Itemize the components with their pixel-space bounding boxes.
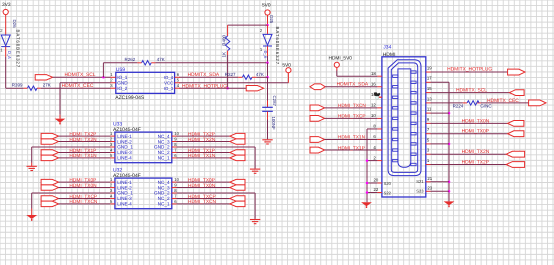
svg-text:47K: 47K	[256, 72, 264, 77]
junction left bus pin 2	[366, 159, 369, 162]
svg-text:GND: GND	[117, 80, 128, 85]
wire HDMI_TXCP to U32 pin 4	[59, 197, 111, 199]
J34 pin 16 lead	[377, 86, 382, 88]
wire U59 pin2 GND	[60, 82, 111, 84]
wire CEC left segment	[6, 87, 24, 89]
J34 pin 3 stub	[411, 153, 416, 155]
svg-text:GND_2: GND_2	[154, 191, 170, 196]
wire C287 bottom	[267, 112, 269, 120]
port HDMI_TX2N right of U33	[230, 139, 245, 144]
U59 pin 5 lead	[175, 82, 180, 84]
svg-text:BAT60BE6327: BAT60BE6327	[275, 27, 280, 66]
svg-text:J34: J34	[383, 45, 391, 51]
J34 connector slot	[398, 69, 411, 167]
svg-text:22: 22	[374, 187, 379, 192]
port HDMI_TX1P right of U33	[230, 150, 245, 155]
resistor R262	[142, 61, 152, 65]
svg-text:HDMI_TX0P: HDMI_TX0P	[462, 129, 489, 135]
wire pin 1 TX2P to port	[431, 164, 507, 166]
U32 pin 5 lead	[110, 203, 115, 205]
svg-text:HDMI_TX1P: HDMI_TX1P	[338, 145, 365, 151]
J34 pin 15 lead	[426, 92, 431, 94]
svg-text:S23: S23	[416, 188, 424, 193]
svg-text:R400: R400	[221, 35, 226, 46]
port HDMI_TX1P left of U33	[41, 150, 58, 155]
svg-text:10: 10	[371, 113, 376, 118]
resistor R327	[242, 75, 252, 79]
svg-text:19: 19	[427, 65, 432, 70]
svg-text:HDMI_TXCP: HDMI_TXCP	[188, 194, 216, 200]
svg-text:17: 17	[427, 76, 432, 81]
wire 5V0 to rail	[267, 15, 269, 25]
svg-text:LINE-3: LINE-3	[117, 150, 132, 155]
svg-text:AZC199-04S: AZC199-04S	[115, 95, 145, 101]
wire U33 pin 10 to port	[177, 135, 230, 137]
J34 pin 1 stub	[411, 163, 416, 165]
port HDMI_TX1N left of U33	[41, 155, 58, 160]
J34 pin 6 lead	[377, 139, 382, 141]
U32 pin 8 lead	[172, 192, 177, 194]
wire pin 23 to bus	[431, 190, 450, 192]
svg-text:HDMI_5V0: HDMI_5V0	[329, 56, 353, 62]
svg-text:HDMITX_SDA: HDMITX_SDA	[188, 72, 220, 78]
port HDMI_TX2P at J34	[506, 162, 524, 168]
wire HDMI_TX0P to U32 pin 1	[59, 181, 111, 183]
svg-text:HDMITX_CEC: HDMITX_CEC	[62, 83, 94, 89]
svg-text:HDMI_TXCN: HDMI_TXCN	[338, 103, 367, 109]
svg-text:12: 12	[371, 103, 376, 108]
svg-text:D25: D25	[269, 15, 274, 24]
wire R400 bottom to HOTPLUG	[227, 51, 229, 55]
wire pin 15 SCL to port	[431, 92, 510, 94]
svg-text:IO_4: IO_4	[164, 75, 174, 80]
svg-text:GND_1: GND_1	[117, 145, 133, 150]
svg-text:S20: S20	[384, 181, 392, 186]
J34 pin 5 lead	[426, 143, 431, 145]
U32 pin 2 lead	[110, 187, 115, 189]
J34 pin 5 stub	[411, 143, 416, 145]
wire pin 9 TX0N to port	[431, 122, 508, 124]
wire rail left of R262	[103, 62, 137, 64]
ground arrow U59 GND	[55, 119, 66, 125]
svg-text:HDMI_TX2N: HDMI_TX2N	[69, 137, 97, 143]
ground arrow J34 right	[444, 201, 455, 207]
ground earth U33	[27, 166, 37, 170]
J34 pin 4 lead	[377, 149, 382, 151]
wire U33 GND_1 lead	[31, 163, 33, 167]
wire D25 to rail junction	[267, 46, 269, 56]
port HDMI_TXCP left of U32	[41, 196, 58, 201]
svg-text:NC_2: NC_2	[158, 150, 170, 155]
port HDMI_TX1N right of U33	[230, 155, 245, 160]
svg-text:HDMI_TXCN: HDMI_TXCN	[188, 199, 217, 205]
U59 pin 1 lead	[111, 76, 116, 78]
port HDMITX_CEC at J34	[529, 100, 546, 106]
U33 pin 5 lead	[110, 157, 115, 159]
svg-text:HDMI_TX1N: HDMI_TX1N	[338, 135, 366, 141]
port HDMI_TX0P right of U32	[230, 179, 245, 184]
U33 pin 9 lead	[172, 141, 177, 143]
J34 pin 10 lead	[377, 117, 382, 119]
svg-text:LINE-4: LINE-4	[117, 202, 132, 207]
ground earth U33 GND_2	[250, 169, 260, 173]
J34 pin 12 lead	[377, 107, 382, 109]
wire pin 13 to R224	[431, 102, 463, 104]
svg-text:R224: R224	[453, 104, 464, 109]
port HDMI_TX0N at J34	[508, 121, 524, 127]
svg-text:S22: S22	[384, 191, 392, 196]
wire pin 3 TX2N to port	[431, 153, 507, 155]
port HDMI_TX1P at J34	[310, 147, 325, 153]
wire rail right of R262	[155, 62, 267, 64]
svg-text:HDMITX_HOTPLUG: HDMITX_HOTPLUG	[182, 83, 227, 89]
U32 body	[115, 178, 172, 209]
U32 pin 9 lead	[172, 187, 177, 189]
junction rail/D25	[266, 62, 269, 65]
diode D26	[1, 35, 10, 47]
port HDMI_TX0N left of U32	[41, 185, 58, 190]
svg-text:100NF: 100NF	[271, 117, 276, 130]
J34 connector outline inner	[391, 63, 417, 172]
svg-text:NC_3: NC_3	[158, 185, 170, 190]
svg-text:23: 23	[427, 186, 432, 191]
J34 body	[382, 57, 426, 197]
wire U32 GND_1 lead	[31, 209, 33, 216]
port HDMITX_HOTPLUG at J34	[508, 69, 525, 75]
J34 pin 11 lead	[426, 112, 431, 114]
wire U33 GND_2	[177, 146, 256, 148]
J34 pin 8 stub	[393, 128, 398, 130]
junction left bus pin 20	[366, 182, 369, 185]
resistor R327 leads	[238, 76, 242, 78]
wire U33 GND_1	[32, 146, 111, 148]
J34 pin 17 stub	[411, 81, 416, 83]
svg-text:5V0: 5V0	[282, 63, 291, 69]
power port HDMI_5V0 circle	[334, 62, 339, 67]
svg-text:S21: S21	[416, 179, 424, 184]
power port 3V3 circle	[3, 9, 8, 14]
svg-text:GND_2: GND_2	[154, 145, 170, 150]
U33 pin 1 lead	[110, 135, 115, 137]
svg-text:LINE-3: LINE-3	[117, 196, 132, 201]
resistor R399	[27, 86, 37, 90]
port HDMITX_SDA bidir	[310, 84, 325, 90]
svg-text:21: 21	[427, 176, 432, 181]
svg-text:15: 15	[427, 86, 432, 91]
wire U33 pin 9 to port	[177, 141, 230, 143]
wire U59 pin5 VCC	[179, 82, 288, 84]
svg-text:HDMI_TX1N: HDMI_TX1N	[69, 153, 97, 159]
wire SDA to pin 16	[325, 86, 377, 88]
svg-text:HDMI_TXCP: HDMI_TXCP	[69, 194, 97, 200]
J34 pin 15 stub	[411, 91, 416, 93]
svg-text:HDMI_TX2N: HDMI_TX2N	[462, 149, 490, 155]
svg-text:3V3: 3V3	[2, 2, 11, 8]
U33 pin 8 lead	[172, 146, 177, 148]
J34 pin 14 cursor artifact	[374, 92, 380, 99]
J34 pin 2 stub	[393, 159, 398, 161]
wire HDMI_TXCN to J34	[325, 107, 378, 109]
U33 body	[115, 132, 172, 163]
svg-text:VCC: VCC	[164, 80, 173, 85]
port HDMI_TXCP right of U32	[230, 196, 245, 201]
J34 pin 19 stub	[411, 71, 416, 73]
svg-text:HDMI_TX1P: HDMI_TX1P	[69, 148, 96, 154]
wire column to C287	[267, 77, 269, 100]
wire U33 pin 6 to port	[177, 157, 230, 159]
wire U32 pin 7 to port	[177, 197, 230, 199]
wire HDMI_TX1P to U33 pin 4	[59, 151, 111, 153]
svg-text:HDMITX_SCL: HDMITX_SCL	[65, 72, 96, 78]
port HDMI_TX2N left of U33	[41, 139, 58, 144]
ground earth C287	[262, 140, 272, 144]
J34 pin 7 stub	[411, 133, 416, 135]
svg-text:LINE-4: LINE-4	[117, 156, 132, 161]
wire U32 pin 6 to port	[177, 203, 230, 205]
J34 pin 22 lead	[377, 192, 382, 194]
port HDMITX_HOTPLUG	[246, 86, 263, 91]
wire HDMI_TX1N to U33 pin 5	[59, 157, 111, 159]
capacitor C287	[262, 107, 273, 111]
resistor R399 leads	[24, 87, 28, 89]
power port 5V0 circle	[265, 10, 270, 15]
junction right bus pin 5	[448, 143, 451, 146]
wire rail junction to SDA	[267, 63, 269, 78]
J34 pin 9 stub	[411, 122, 416, 124]
svg-text:LINE-2: LINE-2	[117, 139, 132, 144]
J34 pin 20 lead	[377, 182, 382, 184]
power port 5V0 second circle	[286, 68, 291, 73]
J34 pin 13 stub	[411, 102, 416, 104]
svg-text:HDMI_TX0N: HDMI_TX0N	[188, 183, 216, 189]
junction SDA/column	[266, 76, 269, 79]
port HDMI_TX2N at J34	[506, 151, 524, 157]
junction right bus pin 11	[448, 112, 451, 115]
resistor R224 leads	[463, 102, 467, 104]
svg-text:NC_3: NC_3	[158, 139, 170, 144]
U32 pin 7 lead	[172, 197, 177, 199]
svg-text:HDMITX_SCL: HDMITX_SCL	[456, 88, 487, 94]
svg-text:HDMI_TXCP: HDMI_TXCP	[338, 114, 366, 120]
svg-text:IO_2: IO_2	[117, 86, 128, 91]
svg-text:5V0: 5V0	[262, 3, 271, 9]
svg-text:10: 10	[174, 177, 179, 182]
svg-text:HDMI_TX1P: HDMI_TX1P	[188, 148, 215, 154]
port HDMI_TXCN at J34	[310, 105, 325, 111]
port HDMI_TX0P left of U32	[41, 179, 58, 184]
U33 pin 2 lead	[110, 141, 115, 143]
wire R224 to CEC port	[481, 102, 529, 104]
svg-text:16: 16	[371, 81, 376, 86]
port HDMI_TXCP at J34	[310, 116, 325, 122]
svg-text:HDMI_TX2P: HDMI_TX2P	[69, 131, 96, 137]
J34 pin 14 lead	[377, 96, 382, 98]
svg-text:HDMI_TXCN: HDMI_TXCN	[69, 199, 98, 205]
U59 body	[116, 72, 175, 93]
ground arrow U32	[26, 215, 37, 221]
svg-text:NC_1: NC_1	[158, 202, 170, 207]
svg-text:C287: C287	[272, 96, 277, 107]
svg-text:NC_4: NC_4	[158, 134, 170, 139]
svg-text:BAT60BE6327: BAT60BE6327	[15, 30, 20, 69]
wire R262 vertical drop	[102, 63, 104, 78]
port HDMI_TX0N right of U32	[230, 185, 245, 190]
J34 pin 19 lead	[426, 71, 431, 73]
U59 pin 2 lead	[111, 82, 116, 84]
U32 pin 4 lead	[110, 197, 115, 199]
wire pin 21 to bus	[431, 181, 450, 183]
svg-text:13: 13	[427, 96, 432, 101]
svg-text:HDMI_TX2N: HDMI_TX2N	[188, 137, 216, 143]
wire U59 pin4 HOTPLUG	[179, 87, 246, 89]
svg-text:HDMI_TX0P: HDMI_TX0P	[188, 177, 215, 183]
J34 pin 18 lead	[377, 75, 382, 77]
wire J34 left ground bus	[367, 128, 377, 130]
wire R327 to junction	[256, 76, 267, 78]
svg-text:GND_1: GND_1	[117, 191, 133, 196]
wire pin 7 TX0P to port	[431, 133, 508, 135]
wire U33 pin 7 to port	[177, 151, 230, 153]
U59 pin 4 lead	[175, 87, 180, 89]
junction R400/HOTPLUG	[226, 87, 229, 90]
svg-text:NC_1: NC_1	[158, 156, 170, 161]
svg-text:LINE-1: LINE-1	[117, 180, 132, 185]
wire HDMI_TX2P to U33 pin 1	[59, 135, 111, 137]
U33 pin 4 lead	[110, 151, 115, 153]
svg-text:NC_2: NC_2	[158, 196, 170, 201]
wire 3V3 to D26	[5, 15, 7, 35]
wire U32 pin 9 to port	[177, 187, 230, 189]
svg-text:1K: 1K	[221, 52, 226, 58]
svg-text:HDMITX_HOTPLUG: HDMITX_HOTPLUG	[447, 66, 492, 72]
wire HDMI_TXCN to U32 pin 5	[59, 203, 111, 205]
svg-text:NC_4: NC_4	[158, 180, 170, 185]
wire D26 to CEC line	[5, 47, 7, 57]
wire pin 19 to port	[431, 71, 508, 73]
wire CEC to U59 pin 3	[41, 87, 111, 89]
U59 pin 6 lead	[175, 76, 180, 78]
svg-text:20: 20	[374, 178, 379, 183]
resistor R224	[467, 101, 479, 105]
diode D25	[263, 34, 272, 46]
svg-text:HDMI_TX2P: HDMI_TX2P	[188, 131, 215, 137]
U33 pin 7 lead	[172, 151, 177, 153]
svg-text:D26: D26	[12, 20, 17, 29]
ground earth U32 GND_2	[250, 220, 260, 224]
J34 pin 16 stub	[393, 86, 398, 88]
J34 pin 12 stub	[393, 107, 398, 109]
J34 pin 9 lead	[426, 122, 431, 124]
wire SDA from U59 pin6	[179, 76, 238, 78]
J34 pin 17 lead	[426, 81, 431, 83]
J34 pin 8 lead	[377, 128, 382, 130]
wire HDMI_TXCP to J34	[325, 117, 378, 119]
port HDMITX_SCL	[35, 75, 52, 80]
port HDMI_TX2P left of U33	[41, 133, 58, 138]
J34 pin 14 lead stub	[377, 96, 382, 98]
J34 connector outline outer	[388, 60, 421, 176]
U32 pin 10 lead	[172, 181, 177, 183]
J34 pin 23 lead	[426, 190, 431, 192]
svg-text:HDMI_TX0N: HDMI_TX0N	[462, 118, 490, 124]
J34 pin 7 lead	[426, 133, 431, 135]
svg-text:HDMI_TX0P: HDMI_TX0P	[69, 177, 96, 183]
svg-text:G/NC: G/NC	[480, 104, 492, 109]
wire HDMI_5V0 to pin 18	[336, 67, 338, 70]
wire VCC riser	[287, 73, 289, 83]
svg-text:HDMITX_CEC: HDMITX_CEC	[487, 98, 519, 104]
J34 pin 1 lead	[426, 164, 431, 166]
svg-text:D_A: D_A	[7, 51, 12, 59]
svg-text:IO_3: IO_3	[164, 86, 174, 91]
svg-text:11: 11	[427, 107, 432, 112]
wire D25 top lead	[267, 25, 269, 34]
wire U32 GND_2	[177, 192, 256, 194]
port HDMITX_SCL at J34	[509, 90, 524, 96]
J34 pin 18 stub	[393, 75, 398, 77]
wire pin 11 to bus	[431, 112, 450, 114]
J34 pin 6 stub	[393, 138, 398, 140]
svg-text:R399: R399	[12, 83, 23, 88]
svg-text:R262: R262	[125, 57, 136, 62]
svg-text:10: 10	[174, 131, 179, 136]
wire U32 pin 10 to port	[177, 181, 230, 183]
U32 pin 1 lead	[110, 181, 115, 183]
svg-text:18: 18	[371, 71, 376, 76]
wire HDMI_TX2N to U33 pin 2	[59, 141, 111, 143]
resistor R400	[225, 36, 229, 51]
J34 pin 21 lead	[426, 181, 431, 183]
J34 pin 4 stub	[393, 149, 398, 151]
port HDMI_TXCN left of U32	[41, 201, 58, 206]
svg-text:R327: R327	[225, 72, 236, 77]
wire HDMI_TX1P to J34	[325, 149, 378, 151]
wire GND lead	[59, 115, 61, 119]
svg-text:HDMI_TX2P: HDMI_TX2P	[462, 159, 489, 165]
U33 pin 10 lead	[172, 135, 177, 137]
junction right bus pin 21	[448, 181, 451, 184]
port HDMI_TX0P at J34	[508, 131, 524, 137]
svg-text:LINE-2: LINE-2	[117, 185, 132, 190]
U59 pin 3 lead	[111, 87, 116, 89]
J34 pin 13 lead	[426, 102, 431, 104]
svg-text:IO_1: IO_1	[117, 75, 128, 80]
J34 pin 11 stub	[411, 112, 416, 114]
junction SCL/R262	[102, 76, 105, 79]
J34 pin 10 stub	[393, 117, 398, 119]
svg-text:27K: 27K	[43, 83, 51, 88]
U32 pin 6 lead	[172, 203, 177, 205]
svg-text:HDMI_TX0N: HDMI_TX0N	[69, 183, 97, 189]
J34 pin 3 lead	[426, 153, 431, 155]
ground arrow J34 left	[361, 202, 372, 208]
wire top rail to R400	[228, 24, 268, 26]
U33 pin 6 lead	[172, 157, 177, 159]
wire R400 top lead	[227, 25, 229, 36]
U32 pin 3 lead	[110, 192, 115, 194]
port HDMI_TXCN right of U32	[230, 201, 245, 206]
resistor R262 leads	[137, 62, 141, 64]
junction 5V0 rail	[266, 24, 269, 27]
svg-text:HDMITX_SDA: HDMITX_SDA	[337, 82, 369, 88]
port HDMI_TX2P right of U33	[230, 133, 245, 138]
junction left bus pin 22	[366, 191, 369, 194]
J34 pin 14 stub	[393, 96, 398, 98]
svg-text:LINE-1: LINE-1	[117, 134, 132, 139]
port HDMI_TX1N at J34	[310, 137, 325, 143]
wire pin 17 to bus	[431, 81, 450, 83]
wire pin 5 to bus	[431, 143, 450, 145]
